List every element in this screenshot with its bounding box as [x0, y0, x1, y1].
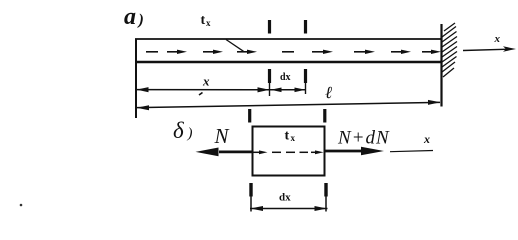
dx dimension (lower) — [250, 208, 328, 210]
label N+dN — [337, 128, 390, 149]
ticks above box — [248, 109, 251, 123]
x axis line (lower) — [390, 151, 433, 152]
bar left end line — [135, 39, 137, 119]
x dimension line — [137, 89, 269, 91]
stray tick mark below x label — [199, 93, 203, 96]
label delta) — [173, 118, 193, 143]
svg-text:dx: dx — [280, 72, 291, 83]
dx dimension (top) — [270, 89, 306, 91]
svg-text:t: t — [285, 129, 290, 144]
ticks below box with extensions — [249, 183, 252, 197]
N+dN arrow (right) — [325, 150, 362, 153]
x axis label (lower) — [423, 132, 430, 146]
svg-text:): ) — [137, 12, 144, 29]
svg-text:x: x — [494, 33, 501, 45]
element ticks below bar with extensions — [268, 69, 271, 83]
svg-text:x: x — [206, 18, 211, 28]
element ticks above bar — [268, 20, 271, 34]
dashed t_x line inside box — [253, 151, 315, 153]
svg-text:x: x — [202, 74, 210, 89]
N arrow (left) — [219, 150, 253, 153]
svg-text:N: N — [214, 124, 230, 148]
x axis arrow right of wall — [463, 49, 509, 50]
dx label (top) — [280, 72, 291, 83]
wall line — [440, 24, 442, 107]
l dimension line — [137, 102, 440, 107]
svg-text:δ: δ — [173, 118, 184, 143]
svg-text:ℓ: ℓ — [325, 83, 332, 102]
stray dot bottom-left — [20, 204, 23, 207]
svg-text:): ) — [187, 126, 193, 142]
svg-text:a: a — [124, 4, 136, 30]
svg-text:N+dN: N+dN — [337, 128, 390, 149]
wall hatching — [442, 23, 457, 77]
bar bottom edge — [135, 61, 441, 64]
svg-text:t: t — [201, 13, 206, 28]
l label — [325, 83, 332, 102]
svg-text:x: x — [423, 132, 430, 146]
svg-text:x: x — [291, 133, 296, 143]
dx label (lower) — [279, 192, 291, 204]
dashed load line with arrows (t_x distribution) — [146, 51, 436, 53]
leader line from t_x to axis — [226, 40, 244, 52]
svg-text:dx: dx — [279, 192, 291, 204]
x axis label — [494, 33, 501, 45]
bar top edge — [135, 38, 441, 40]
x dimension label — [202, 74, 210, 89]
label a) — [124, 4, 144, 30]
t_x label inside box — [285, 129, 296, 144]
element box — [253, 127, 325, 176]
label N — [214, 124, 230, 148]
label t_x (top, with leader) — [201, 13, 212, 28]
